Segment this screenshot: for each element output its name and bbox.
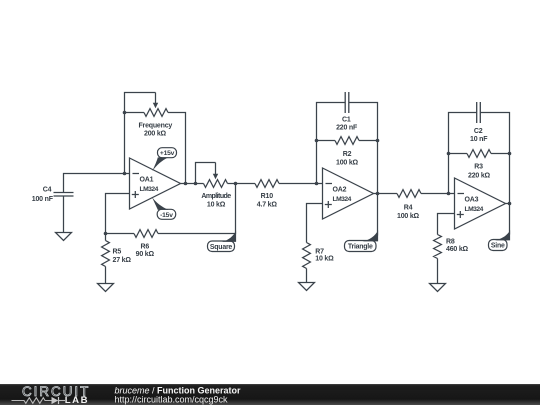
svg-text:C1: C1 xyxy=(342,117,351,124)
svg-text:Amplitude: Amplitude xyxy=(201,193,231,200)
svg-text:27 kΩ: 27 kΩ xyxy=(113,257,132,264)
svg-text:http://circuitlab.com/cqcg9ck: http://circuitlab.com/cqcg9ck xyxy=(115,394,229,404)
svg-text:100 kΩ: 100 kΩ xyxy=(336,160,359,167)
svg-text:-15v: -15v xyxy=(160,212,173,219)
svg-text:+15v: +15v xyxy=(160,150,175,157)
svg-text:10 kΩ: 10 kΩ xyxy=(207,201,226,208)
svg-text:Sine: Sine xyxy=(491,243,505,250)
svg-text:100 kΩ: 100 kΩ xyxy=(397,213,420,220)
svg-text:90 kΩ: 90 kΩ xyxy=(136,251,155,258)
svg-text:10 nF: 10 nF xyxy=(470,136,488,143)
svg-text:220 nF: 220 nF xyxy=(336,125,358,132)
svg-text:R5: R5 xyxy=(113,248,122,255)
svg-text:R10: R10 xyxy=(261,193,274,200)
svg-text:460 kΩ: 460 kΩ xyxy=(446,246,469,253)
svg-text:OA1: OA1 xyxy=(140,176,154,183)
svg-text:Triangle: Triangle xyxy=(348,244,373,251)
svg-text:220 kΩ: 220 kΩ xyxy=(468,173,491,180)
svg-text:R7: R7 xyxy=(315,249,324,256)
svg-text:R8: R8 xyxy=(446,239,455,246)
svg-text:Square: Square xyxy=(210,244,233,251)
svg-text:R4: R4 xyxy=(404,205,413,212)
svg-text:LM324: LM324 xyxy=(333,196,352,203)
svg-text:LM324: LM324 xyxy=(140,186,159,193)
svg-text:4.7 kΩ: 4.7 kΩ xyxy=(257,201,278,208)
svg-text:R3: R3 xyxy=(474,164,483,171)
svg-text:OA3: OA3 xyxy=(465,196,479,203)
svg-text:200 kΩ: 200 kΩ xyxy=(144,131,167,138)
svg-text:C2: C2 xyxy=(474,128,483,135)
svg-text:LAB: LAB xyxy=(65,395,89,405)
svg-text:10 kΩ: 10 kΩ xyxy=(315,256,334,263)
svg-text:Frequency: Frequency xyxy=(138,123,172,130)
svg-text:100 nF: 100 nF xyxy=(32,196,54,203)
svg-text:LM324: LM324 xyxy=(465,206,484,213)
svg-text:R2: R2 xyxy=(343,151,352,158)
svg-text:OA2: OA2 xyxy=(333,186,347,193)
svg-text:C4: C4 xyxy=(43,187,52,194)
svg-text:R6: R6 xyxy=(141,244,150,251)
